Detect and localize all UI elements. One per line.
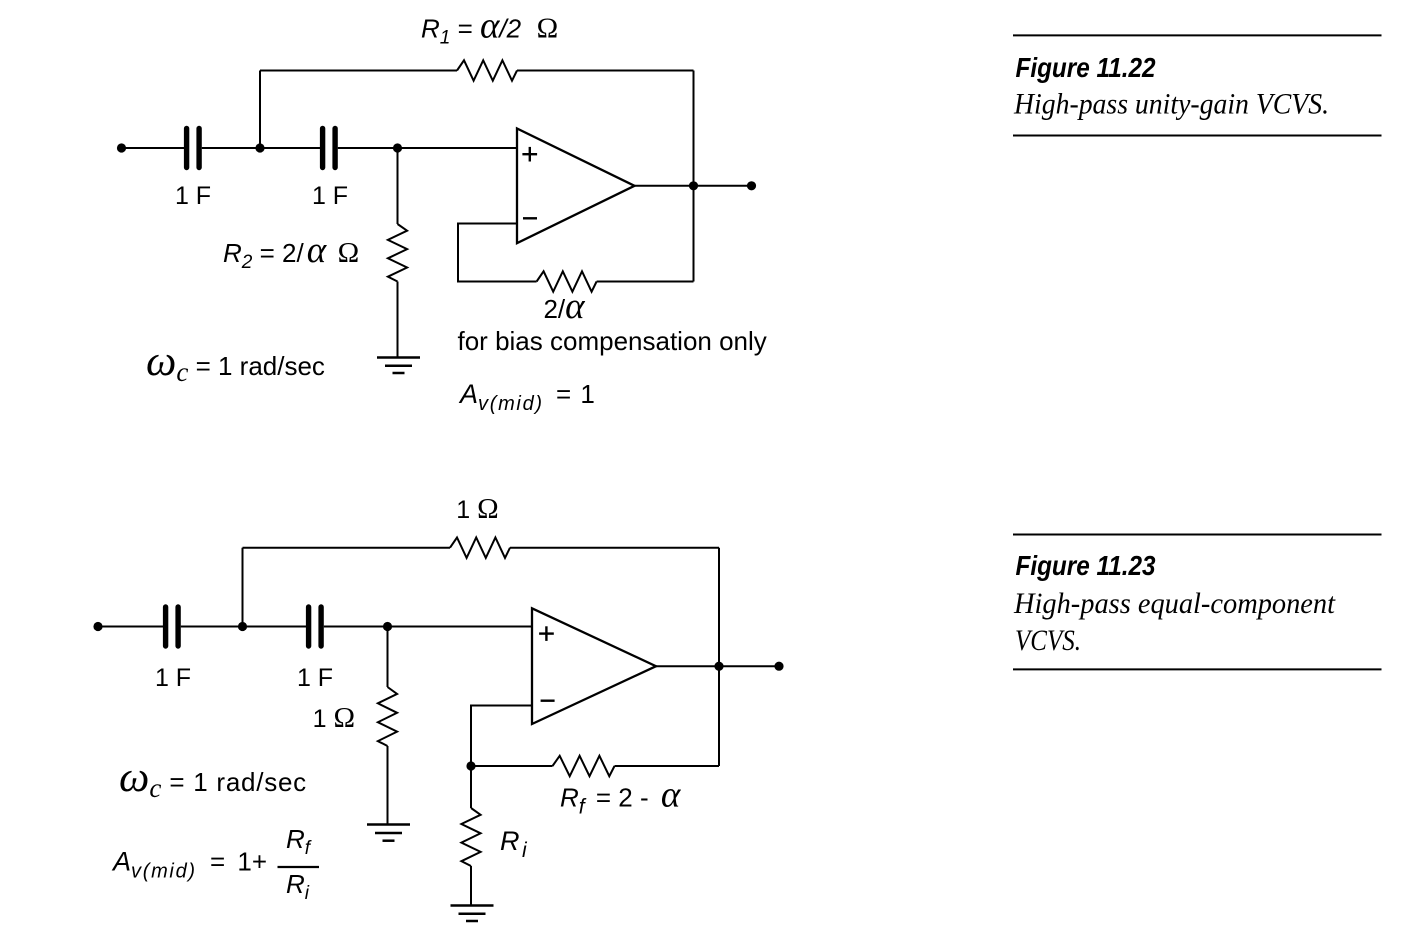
output node junction <box>689 181 698 190</box>
wire node C up to feedback R4 <box>242 548 244 627</box>
svg-text:1 F: 1 F <box>312 182 348 210</box>
svg-text:Figure 11.23: Figure 11.23 <box>1016 550 1156 581</box>
resistor Rf (horizontal) <box>553 756 615 776</box>
wire R3 to ground <box>387 746 389 824</box>
wire node E down to Ri <box>470 766 472 808</box>
svg-text:Av(mid) = 1+: Av(mid) = 1+ <box>111 847 267 883</box>
fraction bar <box>278 866 320 868</box>
capacitor C1 (1 F) <box>187 129 200 168</box>
wire feedback right segment 2 <box>510 547 719 549</box>
svg-text:1 Ω: 1 Ω <box>313 702 355 734</box>
caption rule top 11.23 <box>1013 534 1382 536</box>
wire feedback left segment <box>260 70 457 72</box>
wire feedback right segment <box>517 70 694 72</box>
resistor R2 (vertical) <box>388 224 407 282</box>
op-amp U2 <box>532 608 656 724</box>
wire Ri to ground <box>470 866 472 905</box>
ground (R2) <box>377 358 420 374</box>
svg-text:Av(mid) = 1: Av(mid) = 1 <box>458 379 595 415</box>
wire input to C1 <box>122 147 185 149</box>
svg-text:Figure 11.22: Figure 11.22 <box>1016 52 1156 83</box>
caption rule bottom 11.23 <box>1013 668 1382 670</box>
op-amp U1 minus pin mark <box>523 217 537 219</box>
op-amp U1 plus pin mark <box>522 147 537 162</box>
wire C4 to op-amp + input <box>324 626 532 628</box>
op-amp U2 minus pin mark <box>541 700 555 702</box>
input terminal node 2 <box>93 622 102 631</box>
node B junction <box>393 143 402 152</box>
input terminal node <box>117 143 126 152</box>
wire feedback left segment 2 <box>243 547 451 549</box>
wire minus input left <box>458 224 537 282</box>
node A junction <box>255 143 264 152</box>
svg-text:1 F: 1 F <box>175 182 211 210</box>
svg-text:1 F: 1 F <box>155 664 191 692</box>
wire input to C3 <box>98 626 163 628</box>
node D junction <box>383 622 392 631</box>
output terminal node <box>747 181 756 190</box>
svg-text:R2 = 2/α Ω: R2 = 2/α Ω <box>223 230 359 273</box>
wire minus input left 2 <box>471 706 532 767</box>
resistor Rbias 2/alpha (horizontal) <box>537 271 597 291</box>
svg-text:Rf = 2 - α: Rf = 2 - α <box>560 775 682 819</box>
resistor R1 (feedback, horizontal) <box>457 60 517 80</box>
wire C2 to op-amp + input <box>338 147 517 149</box>
caption rule bottom 11.22 <box>1013 135 1382 137</box>
svg-text:2/α: 2/α <box>543 286 586 327</box>
wire C3 to C4 <box>181 626 306 628</box>
capacitor C3 (1 F) <box>166 607 179 646</box>
resistor R4 1 ohm (feedback, horizontal) <box>450 538 510 558</box>
wire op-amp output <box>635 185 752 187</box>
node C junction <box>238 622 247 631</box>
resistor Ri (vertical) <box>461 808 480 866</box>
wire node E to Rf <box>471 765 553 767</box>
svg-text:VCVS.: VCVS. <box>1015 624 1081 657</box>
wire output vertical <box>693 71 695 282</box>
svg-text:for bias compensation only: for bias compensation only <box>458 326 767 356</box>
wire op-amp 2 output <box>656 665 779 667</box>
svg-text:1 F: 1 F <box>297 664 333 692</box>
ground (R3) <box>367 825 410 841</box>
capacitor C4 (1 F) <box>309 607 322 646</box>
node E junction <box>466 761 475 770</box>
wire Rf to output <box>615 765 720 767</box>
wire output vertical 2 <box>718 548 720 766</box>
svg-text:Ri: Ri <box>286 869 310 904</box>
wire R2 to ground <box>397 282 399 358</box>
svg-text:1 Ω: 1 Ω <box>456 493 498 525</box>
wire node D down to R3 <box>387 627 389 688</box>
resistor R3 1 ohm (vertical) <box>378 687 397 746</box>
output node junction 2 <box>714 662 723 671</box>
op-amp U1 <box>517 129 635 244</box>
svg-text:R1 = α/2 Ω: R1 = α/2 Ω <box>421 6 558 49</box>
wire Rbias to output <box>597 281 694 283</box>
op-amp U2 plus pin mark <box>539 626 554 641</box>
svg-text:Ri: Ri <box>500 826 528 862</box>
wire node A up to feedback R1 <box>259 71 261 149</box>
output terminal node 2 <box>774 662 783 671</box>
wire node B down to R2 <box>397 148 399 224</box>
svg-text:High-pass equal-component: High-pass equal-component <box>1013 587 1336 620</box>
svg-text:ωc = 1 rad/sec: ωc = 1 rad/sec <box>146 338 325 387</box>
svg-text:ωc = 1 rad/sec: ωc = 1 rad/sec <box>119 754 307 803</box>
caption rule top 11.22 <box>1013 34 1382 36</box>
capacitor C2 (1 F) <box>323 129 336 168</box>
ground (Ri) <box>451 906 494 922</box>
svg-text:Rf: Rf <box>286 824 312 859</box>
svg-text:High-pass unity-gain VCVS.: High-pass unity-gain VCVS. <box>1013 88 1329 121</box>
wire C1 to C2 <box>202 147 320 149</box>
